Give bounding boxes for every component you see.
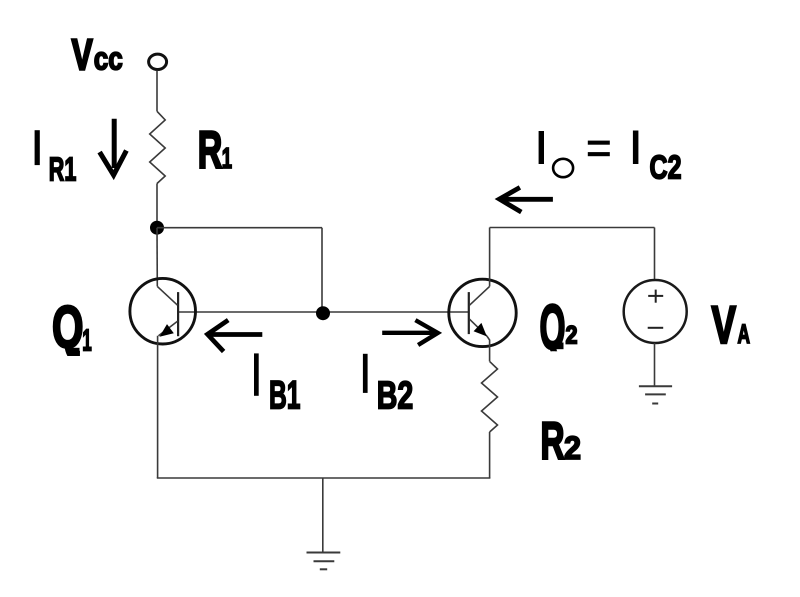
- svg-text:1: 1: [222, 143, 232, 175]
- svg-text:R: R: [198, 121, 223, 180]
- wire corner down to base rail: [321, 228, 323, 313]
- node Q1 collector junction: [150, 221, 164, 235]
- current label I_B2: [363, 354, 413, 418]
- svg-text:B1: B1: [269, 374, 301, 418]
- source VA: [624, 280, 687, 343]
- current arrow I_B2: [382, 320, 438, 345]
- wire VA stem top: [654, 228, 656, 281]
- wire ground stem: [322, 478, 324, 553]
- wire Q2 collector up: [489, 228, 491, 287]
- svg-text:2: 2: [564, 430, 581, 466]
- wire top right rail: [490, 227, 655, 229]
- label R1: [198, 121, 232, 180]
- svg-text:A: A: [738, 319, 751, 349]
- label Q2: [540, 293, 578, 363]
- current arrow I_B1: [208, 320, 263, 351]
- current label I_O = I_C2: [539, 131, 682, 186]
- svg-text:V: V: [72, 30, 93, 79]
- current label I_B1: [254, 353, 301, 417]
- svg-text:2: 2: [566, 321, 578, 349]
- ground center: [307, 553, 341, 570]
- wire base rail Q1 to Q2: [179, 311, 469, 313]
- transistor Q1: [130, 278, 196, 344]
- svg-text:R: R: [541, 412, 565, 471]
- wire R1 to node: [156, 184, 158, 229]
- label Q1: [52, 295, 92, 361]
- wire R2 down: [489, 432, 491, 478]
- label Vcc: [72, 30, 123, 79]
- Vcc terminal: [149, 54, 167, 69]
- svg-text:R1: R1: [49, 151, 77, 188]
- svg-text:C2: C2: [650, 148, 682, 185]
- label VA: [712, 296, 751, 355]
- node base junction: [316, 306, 330, 320]
- svg-text:B2: B2: [377, 375, 414, 418]
- wire node to right corner: [157, 227, 322, 229]
- transistor Q2: [449, 279, 516, 346]
- resistor R2: [482, 361, 498, 432]
- current label I_R1: [35, 130, 77, 187]
- current arrow I_R1: [100, 119, 127, 175]
- ground VA: [639, 386, 672, 403]
- label R2: [541, 412, 582, 471]
- wire Q1 emitter down: [157, 336, 159, 478]
- svg-text:cc: cc: [94, 40, 123, 76]
- wire bottom rail: [157, 477, 491, 479]
- svg-text:V: V: [712, 296, 737, 355]
- svg-text:1: 1: [82, 323, 92, 358]
- wire node down to Q1 collector: [156, 228, 158, 287]
- wire VA to ground: [654, 343, 656, 386]
- wire terminal to R1: [156, 71, 158, 112]
- resistor R1: [150, 111, 166, 183]
- current arrow I_O: [499, 187, 553, 212]
- wire Q2 emitter down to R2: [487, 336, 490, 361]
